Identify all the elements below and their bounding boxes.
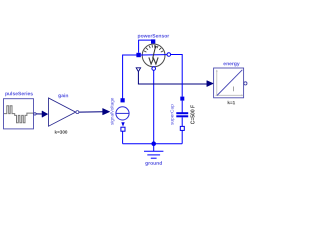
powerSensor power output connector	[136, 68, 140, 72]
superCap positive pin	[180, 97, 184, 101]
energy integrator diagonal	[217, 70, 242, 96]
gain output port	[76, 111, 79, 114]
svg-text:ground: ground	[145, 161, 162, 167]
wire signalVoltage top pin up and to powerSensor pc	[123, 55, 137, 99]
wire plate to negative pin	[181, 117, 183, 126]
powerSensor pv pin	[151, 39, 155, 43]
powerSensor needle	[153, 47, 156, 59]
svg-text:gain: gain	[58, 93, 68, 99]
pulseSeries output port	[34, 113, 36, 115]
ground bus wire	[123, 143, 183, 145]
wire signalVoltage negative pin to ground bus	[122, 131, 124, 144]
wire pulseSeries to gain	[36, 113, 42, 115]
superCap plates	[176, 112, 188, 114]
pulseSeries block	[4, 99, 34, 129]
energy I mark	[233, 87, 235, 92]
powerSensor gauge circle	[142, 44, 165, 67]
powerSensor nv pin	[152, 67, 156, 71]
wire superCap negative pin to ground bus	[181, 130, 183, 143]
svg-text:superCap: superCap	[169, 104, 175, 125]
signalVoltage positive pin	[121, 98, 125, 102]
svg-text:energy: energy	[223, 61, 240, 67]
energy output port	[244, 82, 247, 85]
svg-text:signalVoltage: signalVoltage	[110, 97, 115, 125]
ground junction dot	[151, 141, 156, 146]
wire pin to plate	[181, 101, 183, 113]
powerSensor tick marks	[144, 45, 163, 52]
pulseSeries waveform	[4, 106, 33, 123]
wire through sensor (pc-nc line)	[141, 54, 167, 56]
wire nc to capacitor top	[171, 55, 183, 97]
signalVoltage negative pin	[121, 127, 125, 131]
superCap negative pin	[180, 126, 184, 130]
svg-text:powerSensor: powerSensor	[138, 33, 170, 39]
energy input arrow	[207, 81, 214, 87]
signal wire power output to energy	[138, 72, 207, 84]
signalVoltage input arrow	[103, 108, 110, 115]
svg-text:k=300: k=300	[55, 130, 68, 135]
ground symbol	[144, 144, 163, 159]
signalVoltage source circle	[116, 107, 129, 120]
wire gain to signalVoltage	[79, 111, 103, 113]
wire pc to pv	[139, 40, 151, 53]
svg-text:pulseSeries: pulseSeries	[5, 91, 33, 97]
powerSensor nc pin	[167, 53, 171, 57]
gain input arrow	[42, 111, 48, 117]
svg-text:C=500 F: C=500 F	[191, 105, 197, 124]
energy block box	[214, 68, 244, 98]
signalVoltage polarity mark	[121, 122, 124, 126]
powerSensor pc pin	[136, 53, 140, 57]
gain G1 triangle	[49, 98, 76, 126]
energy axes	[216, 71, 243, 96]
powerSensor W text	[149, 57, 158, 64]
wire nv to ground bus	[153, 70, 155, 143]
svg-text:k=1: k=1	[227, 100, 235, 105]
